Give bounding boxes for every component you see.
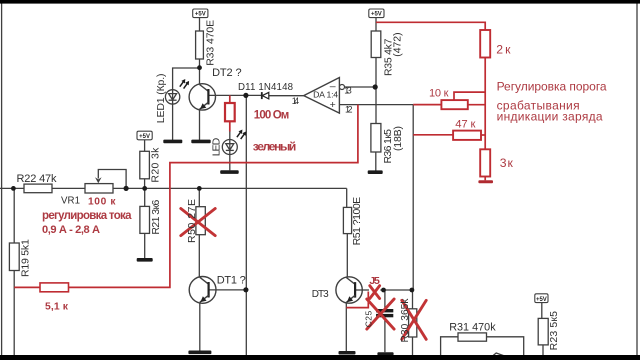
svg-text:10 к: 10 к bbox=[429, 88, 449, 100]
svg-text:DT2 ?: DT2 ? bbox=[212, 67, 242, 79]
svg-text:13: 13 bbox=[344, 86, 352, 96]
svg-text:100 Ом: 100 Ом bbox=[254, 110, 289, 122]
svg-text:47 к: 47 к bbox=[455, 118, 475, 130]
svg-text:100 к: 100 к bbox=[88, 196, 116, 207]
svg-text:R31 470k: R31 470k bbox=[449, 322, 496, 334]
svg-text:0,9 А - 2,8 А: 0,9 А - 2,8 А bbox=[42, 224, 100, 236]
svg-text:R20 3k: R20 3k bbox=[149, 147, 161, 183]
svg-text:DT1 ?: DT1 ? bbox=[217, 275, 246, 287]
svg-text:LED: LED bbox=[211, 137, 223, 156]
svg-text:R50 27E: R50 27E bbox=[186, 199, 198, 243]
svg-text:R33 470E: R33 470E bbox=[205, 20, 217, 66]
svg-text:регулировка тока: регулировка тока bbox=[42, 210, 132, 222]
svg-text:R30 365k: R30 365k bbox=[400, 298, 411, 343]
svg-text:+5V: +5V bbox=[139, 134, 150, 140]
svg-text:индикации заряда: индикации заряда bbox=[497, 109, 603, 123]
svg-text:J5: J5 bbox=[369, 275, 380, 287]
svg-text:+5V: +5V bbox=[195, 12, 206, 18]
svg-text:R22 47k: R22 47k bbox=[17, 173, 58, 185]
svg-text:12: 12 bbox=[345, 104, 353, 114]
svg-text:+5V: +5V bbox=[371, 12, 382, 18]
svg-text:+: + bbox=[330, 99, 336, 111]
svg-text:–: – bbox=[330, 81, 336, 93]
svg-text:зеленый: зеленый bbox=[253, 139, 296, 153]
svg-text:(472): (472) bbox=[392, 32, 404, 56]
svg-text:R19 5k1: R19 5k1 bbox=[20, 239, 32, 277]
svg-text:R51 ?100E: R51 ?100E bbox=[351, 197, 363, 246]
svg-text:2 к: 2 к bbox=[496, 43, 511, 57]
svg-text:LED1 (Кр.): LED1 (Кр.) bbox=[155, 74, 167, 124]
svg-text:+5V: +5V bbox=[536, 297, 547, 303]
svg-text:(18В): (18В) bbox=[392, 126, 404, 151]
svg-text:D11 1N4148: D11 1N4148 bbox=[238, 82, 293, 93]
svg-text:3 к: 3 к bbox=[500, 156, 514, 170]
svg-text:R23 5к5: R23 5к5 bbox=[548, 311, 560, 351]
svg-text:C25: C25 bbox=[364, 311, 374, 328]
svg-text:VR1: VR1 bbox=[61, 196, 80, 207]
svg-text:Регулировка порога: Регулировка порога bbox=[497, 79, 607, 93]
svg-text:14: 14 bbox=[292, 96, 299, 106]
svg-text:DT3: DT3 bbox=[312, 289, 329, 300]
svg-text:R21 3к6: R21 3к6 bbox=[150, 199, 162, 234]
svg-text:5,1 к: 5,1 к bbox=[45, 302, 69, 313]
